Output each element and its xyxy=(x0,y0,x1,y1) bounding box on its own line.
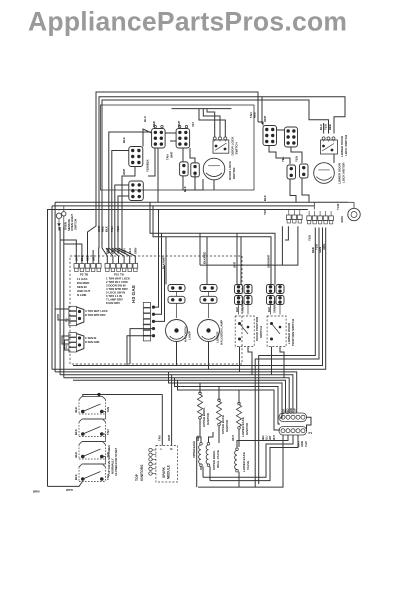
wire xyxy=(307,417,312,431)
svg-text:CLOSED FOR START: CLOSED FOR START xyxy=(114,447,118,476)
wire xyxy=(238,305,240,315)
wire xyxy=(323,123,325,134)
connector P4 xyxy=(69,333,77,337)
svg-text:BLU: BLU xyxy=(319,124,323,130)
wire xyxy=(238,429,240,447)
switch top valve switch 3 xyxy=(79,442,106,445)
wire xyxy=(143,129,152,147)
svg-text:BLK: BLK xyxy=(263,195,267,201)
svg-text:GRN/WHT: GRN/WHT xyxy=(267,254,271,268)
wire right bus xyxy=(73,228,323,366)
connector halogen lamp1 upper xyxy=(168,285,185,292)
wire valve loop D xyxy=(210,435,298,481)
svg-text:RED: RED xyxy=(152,121,156,127)
wire xyxy=(59,227,61,375)
wire lamp1 return xyxy=(176,342,178,366)
wire dps2 return xyxy=(271,347,273,375)
wire xyxy=(154,265,165,321)
svg-text:P1: P1 xyxy=(309,431,313,435)
wire fan to P10 xyxy=(102,248,107,264)
svg-text:YLW: YLW xyxy=(116,226,120,232)
svg-text:YLW: YLW xyxy=(295,156,299,162)
svg-text:SWITCH: SWITCH xyxy=(74,219,78,230)
svg-text:BRN: BRN xyxy=(340,216,344,222)
wire xyxy=(148,148,155,176)
svg-text:WHT: WHT xyxy=(177,120,181,127)
wire xyxy=(115,185,129,253)
svg-text:H3 GAS: H3 GAS xyxy=(131,284,137,303)
wire bus3 xyxy=(60,375,293,413)
wire xyxy=(258,122,263,126)
wire xyxy=(122,167,135,254)
svg-text:WTR: WTR xyxy=(66,488,74,492)
wire xyxy=(290,179,296,202)
wire xyxy=(183,176,203,190)
svg-text:BRN: BRN xyxy=(106,248,110,254)
connector CN10 xyxy=(300,164,309,178)
wire xyxy=(63,227,65,378)
svg-text:IGNITORS: IGNITORS xyxy=(140,464,144,481)
coil upper broil dual valve a xyxy=(199,445,201,464)
coil upper broil dual valve b xyxy=(206,445,208,464)
svg-text:TAN: TAN xyxy=(158,435,162,441)
wire xyxy=(200,466,202,470)
connector dps2 a xyxy=(267,285,275,294)
svg-text:MODULE: MODULE xyxy=(167,465,171,479)
connector CN3 xyxy=(180,162,189,176)
wire dps1 feed xyxy=(236,233,238,284)
wire bus3 xyxy=(73,380,286,413)
svg-text:HALOGEN LAMP: HALOGEN LAMP xyxy=(220,320,224,345)
wire xyxy=(208,303,210,318)
connector halogen lamp2 upper xyxy=(200,285,217,292)
wire xyxy=(277,129,285,131)
connector strip TB2 xyxy=(307,216,312,221)
wire xyxy=(207,109,215,137)
connector CN5 xyxy=(129,147,143,167)
wire xyxy=(209,432,214,443)
connector dps2 d xyxy=(276,296,284,305)
connector halogen lamp2 lower xyxy=(200,296,217,303)
svg-text:BLK/WHT: BLK/WHT xyxy=(162,256,166,269)
wire xyxy=(285,226,288,240)
svg-text:TOP: TOP xyxy=(135,473,139,481)
wire lamp2 return xyxy=(208,342,210,369)
wire dps1 feed xyxy=(240,237,242,285)
lamp halogen lamp xyxy=(166,320,188,342)
wire bus2 xyxy=(153,206,271,285)
wire ignitor feed xyxy=(169,372,283,418)
svg-text:RED: RED xyxy=(328,124,332,130)
svg-text:D SEN GND: D SEN GND xyxy=(85,340,100,344)
svg-text:TAN: TAN xyxy=(106,407,110,413)
connector CN8 xyxy=(285,127,298,147)
svg-text:BLK: BLK xyxy=(267,307,271,312)
wire xyxy=(218,426,220,443)
wire xyxy=(281,226,283,265)
svg-text:LAMP: LAMP xyxy=(188,331,192,340)
wire xyxy=(96,92,258,210)
svg-text:P4: P4 xyxy=(65,345,69,349)
svg-text:UPPER BAKE: UPPER BAKE xyxy=(192,441,196,458)
wire xyxy=(199,233,201,265)
svg-text:YLW: YLW xyxy=(308,235,312,241)
svg-text:YLW: YLW xyxy=(324,124,328,130)
svg-text:BLK: BLK xyxy=(74,407,78,413)
resistor upper broil ignitor xyxy=(199,392,202,395)
wire xyxy=(333,154,335,163)
wire xyxy=(154,233,162,314)
switch lower door position switch xyxy=(267,316,286,347)
svg-text:BLU: BLU xyxy=(128,248,132,254)
wire xyxy=(202,467,204,478)
connector P3 xyxy=(69,306,77,310)
connector halogen lamp1 lower xyxy=(168,296,185,303)
wire xyxy=(238,472,240,487)
svg-text:TAN: TAN xyxy=(110,226,114,232)
svg-text:BLK/RED: BLK/RED xyxy=(203,252,207,264)
wire xyxy=(213,180,215,190)
wire right bus xyxy=(259,228,316,485)
svg-text:P3: P3 xyxy=(65,318,69,322)
wire lamp1 feed xyxy=(165,237,167,285)
switch top valve switch 2 xyxy=(79,419,106,422)
svg-text:VLT: VLT xyxy=(117,249,121,254)
junction xyxy=(97,393,100,396)
svg-text:YLW/BLK: YLW/BLK xyxy=(146,159,150,172)
svg-text:TAN: TAN xyxy=(106,429,110,435)
connector CN9 xyxy=(287,165,296,179)
wire xyxy=(62,336,69,344)
svg-text:SWITCH: SWITCH xyxy=(259,326,263,338)
svg-text:A TW4 WHT LOCK: A TW4 WHT LOCK xyxy=(85,309,108,313)
control board H3 GAS dashed outline xyxy=(70,256,242,364)
connector dps1 c xyxy=(235,296,243,305)
wire xyxy=(102,100,329,248)
wire xyxy=(127,336,154,366)
svg-text:BLK: BLK xyxy=(183,186,187,192)
coil lower bake valve xyxy=(235,451,237,470)
svg-text:ORN/WHT: ORN/WHT xyxy=(273,300,277,313)
wire xyxy=(83,395,163,397)
connector CN4 xyxy=(191,163,200,177)
svg-text:BLK: BLK xyxy=(80,255,84,261)
wire spark feed xyxy=(161,395,163,446)
svg-text:MOTOR: MOTOR xyxy=(232,167,236,179)
svg-text:BLK: BLK xyxy=(74,452,78,458)
connector CN1 xyxy=(152,129,166,149)
wire junction xyxy=(313,202,315,209)
wire xyxy=(197,437,201,487)
wire main bus xyxy=(51,206,53,369)
wire xyxy=(238,390,240,404)
wire main bus xyxy=(54,202,56,372)
wire dps1 return xyxy=(239,347,241,372)
wire xyxy=(65,340,69,350)
svg-text:IGNITOR: IGNITOR xyxy=(245,422,249,435)
wire xyxy=(199,109,225,137)
wire xyxy=(261,97,263,124)
wire bus3 xyxy=(64,378,289,413)
svg-text:BLK: BLK xyxy=(74,429,78,435)
svg-text:N LINE: N LINE xyxy=(77,293,87,297)
wire valve loop C xyxy=(203,435,293,477)
wire xyxy=(166,132,177,134)
svg-text:ORN: ORN xyxy=(322,244,326,250)
wire xyxy=(218,387,220,401)
connector strip P10 xyxy=(105,264,110,269)
wire spark feed xyxy=(171,375,173,446)
svg-text:ORN: ORN xyxy=(134,248,138,254)
wire xyxy=(170,140,176,142)
svg-text:GRY: GRY xyxy=(122,248,126,254)
svg-text:SPARK: SPARK xyxy=(162,466,166,478)
wire xyxy=(48,481,83,486)
svg-text:YEL: YEL xyxy=(281,156,285,162)
svg-text:C SEN IN: C SEN IN xyxy=(85,336,96,340)
wire xyxy=(199,419,201,438)
svg-text:WHT: WHT xyxy=(263,115,267,122)
connector dps1 b xyxy=(244,285,252,294)
fuse oven light xyxy=(63,206,65,211)
wire ignitor feed xyxy=(178,380,281,430)
svg-text:N: N xyxy=(170,447,172,451)
wire main bus L1 xyxy=(48,210,308,487)
svg-text:BLK: BLK xyxy=(235,307,239,312)
motor lower door lock motor xyxy=(314,163,335,184)
connector CN7 xyxy=(263,126,277,146)
svg-text:BLK: BLK xyxy=(122,137,126,143)
svg-text:BLK: BLK xyxy=(143,115,147,122)
wire xyxy=(154,210,159,308)
wire bus2 xyxy=(150,202,275,284)
svg-text:WHT: WHT xyxy=(122,168,126,175)
connector dps1 a xyxy=(235,285,243,294)
wire xyxy=(130,329,154,364)
wire xyxy=(118,196,129,253)
svg-text:IGNITOR: IGNITOR xyxy=(225,419,229,432)
svg-text:TAN: TAN xyxy=(111,248,115,254)
svg-text:GRY: GRY xyxy=(91,255,95,261)
svg-text:AppliancePartsPros.com: AppliancePartsPros.com xyxy=(28,7,347,37)
svg-text:RED: RED xyxy=(196,435,200,441)
wire xyxy=(176,292,178,297)
svg-text:WHT: WHT xyxy=(231,435,235,441)
svg-text:VALVE: VALVE xyxy=(246,461,250,470)
wire TB2 pins xyxy=(308,211,310,216)
wire xyxy=(176,303,178,318)
wire xyxy=(209,467,211,481)
svg-text:VLT: VLT xyxy=(191,122,195,127)
svg-text:YLW: YLW xyxy=(336,203,340,210)
connector strip P2 xyxy=(74,264,79,269)
resistor lower bake ignitor xyxy=(238,402,241,405)
node door area box xyxy=(101,105,255,190)
connector CN6 xyxy=(129,181,144,201)
wire P2 pins xyxy=(60,240,76,264)
wire xyxy=(269,146,290,165)
wire xyxy=(190,148,195,163)
wire xyxy=(112,151,129,254)
svg-text:YLW: YLW xyxy=(304,441,308,447)
switch door lock switch xyxy=(213,140,229,153)
connector P1 row1 xyxy=(279,413,307,422)
wire switch chain xyxy=(83,412,106,420)
lamp oven light xyxy=(348,208,360,220)
wire xyxy=(55,308,69,310)
connector P5 board right edge xyxy=(143,302,150,307)
svg-text:LOCK MOTOR: LOCK MOTOR xyxy=(342,162,346,183)
motor door lock motor xyxy=(203,158,225,180)
svg-text:P2 TB: P2 TB xyxy=(80,273,88,277)
switch lower door lock switch xyxy=(321,140,338,154)
svg-text:8 IGN DRV: 8 IGN DRV xyxy=(106,301,120,305)
switch top valve switch 1 xyxy=(79,397,106,400)
svg-text:GRN: GRN xyxy=(300,441,304,447)
wire valve loop A xyxy=(198,435,283,487)
svg-text:POSITION SWITCH: POSITION SWITCH xyxy=(291,319,295,346)
wire TB1 pins xyxy=(288,210,290,216)
connector dps2 b xyxy=(276,285,284,294)
switch door position switch xyxy=(235,316,254,347)
wire xyxy=(302,178,309,202)
resistor upper bake ignitor xyxy=(218,399,221,402)
wire bus3 xyxy=(55,372,297,413)
lamp lower halogen lamp xyxy=(198,320,220,342)
svg-text:L: L xyxy=(161,447,163,451)
wire lamp2 feed xyxy=(206,237,208,285)
connector P1 row2 xyxy=(279,427,307,436)
wire xyxy=(200,226,298,265)
fuse oven sensor xyxy=(58,210,60,211)
wire xyxy=(99,97,345,248)
wire xyxy=(157,148,159,202)
spark module dashed box xyxy=(156,446,178,483)
wire xyxy=(58,314,69,320)
svg-text:WHT: WHT xyxy=(170,151,174,158)
wire right bus xyxy=(255,228,319,488)
svg-text:RED: RED xyxy=(253,112,257,118)
wire xyxy=(199,383,201,393)
svg-text:WHT: WHT xyxy=(75,254,79,261)
wire right bus xyxy=(52,228,326,370)
connector dps1 d xyxy=(244,296,252,305)
wire xyxy=(291,147,302,163)
svg-text:B TW2 MTR DRV: B TW2 MTR DRV xyxy=(85,313,106,317)
svg-text:DUAL VALVE: DUAL VALVE xyxy=(216,450,220,468)
wire xyxy=(270,305,272,315)
svg-text:BRN: BRN xyxy=(33,490,40,494)
wire xyxy=(109,132,151,253)
wire ignitor feed xyxy=(175,378,281,424)
wire xyxy=(194,175,196,190)
wire valve loop B xyxy=(237,435,288,448)
wire xyxy=(182,148,184,162)
svg-text:WHT: WHT xyxy=(167,434,171,441)
connector dps2 c xyxy=(267,296,275,305)
wire inner box xyxy=(172,108,232,110)
connector CN2 xyxy=(176,129,190,149)
wire xyxy=(208,292,210,297)
svg-text:IGNITOR: IGNITOR xyxy=(206,412,210,425)
svg-text:ORN/WHT: ORN/WHT xyxy=(241,300,245,313)
svg-text:BLK: BLK xyxy=(105,226,109,232)
wire xyxy=(203,109,220,137)
spark electrodes xyxy=(149,448,152,451)
connector strip TB1 xyxy=(287,215,292,220)
switch top valve switch 4 xyxy=(79,464,106,467)
svg-text:BLK: BLK xyxy=(74,474,78,480)
svg-text:LOCK SWITCH: LOCK SWITCH xyxy=(344,135,348,156)
svg-text:RED: RED xyxy=(86,255,90,261)
svg-text:SWITCH: SWITCH xyxy=(235,142,239,155)
